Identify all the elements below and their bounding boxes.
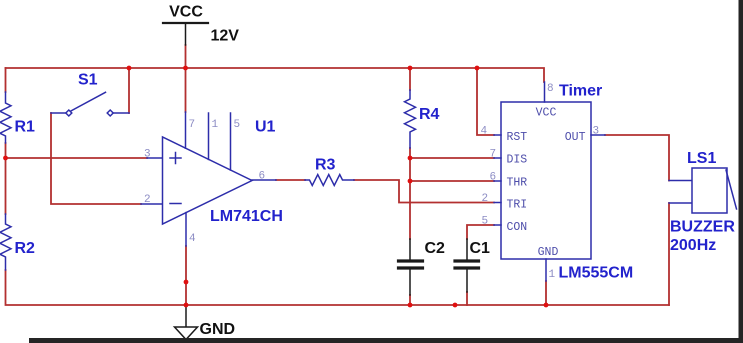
switch S1 right lead (113, 112, 129, 114)
border bottom edge (29, 338, 743, 343)
svg-text:VCC: VCC (169, 4, 203, 21)
svg-text:R3: R3 (315, 157, 336, 174)
wire R4 bottom to C2 (409, 148, 411, 239)
svg-text:DIS: DIS (507, 154, 528, 167)
svg-text:6: 6 (490, 172, 497, 184)
resistor R2 (0, 214, 11, 270)
wire S1 right terminal to bus (128, 68, 130, 113)
svg-text:TRI: TRI (507, 199, 528, 212)
wire R3 to TRI (354, 180, 494, 203)
timer THR stub (494, 180, 501, 182)
junction C2 bus (408, 303, 413, 308)
wire VCC symbol drop (185, 45, 187, 68)
svg-text:7: 7 (189, 119, 196, 131)
svg-text:4: 4 (481, 126, 488, 138)
svg-text:7: 7 (490, 149, 497, 161)
svg-text:1: 1 (212, 119, 219, 131)
junction C1 bus (453, 303, 458, 308)
svg-text:6: 6 (259, 171, 266, 183)
capacitor C2 bottom lead (409, 270, 411, 296)
svg-text:GND: GND (538, 246, 559, 259)
border right edge (739, 0, 743, 343)
wire THR (410, 180, 494, 182)
timer pin1 lead (545, 259, 547, 281)
junction R4 bus (408, 66, 413, 71)
resistor R4 (405, 90, 416, 148)
svg-text:2: 2 (482, 193, 489, 205)
svg-text:VCC: VCC (536, 107, 557, 120)
svg-text:C2: C2 (425, 240, 446, 257)
timer TRI stub (494, 202, 501, 204)
junction RST bus (475, 66, 480, 71)
svg-text:5: 5 (234, 119, 241, 131)
op-amp pin7 lead (185, 112, 187, 148)
op-amp pin1 lead (208, 113, 210, 159)
wire top VCC bus (6, 68, 545, 82)
capacitor C1 bottom lead (466, 270, 468, 293)
wire op-amp pin7 supply (185, 68, 187, 112)
svg-text:C1: C1 (470, 240, 491, 257)
op-amp U1 pin3 stub (147, 157, 163, 159)
svg-text:RST: RST (507, 131, 528, 144)
wire left rail between R1 and R2 (5, 143, 7, 214)
timer CON stub (494, 224, 501, 226)
junction pin4 bus (184, 303, 189, 308)
svg-text:S1: S1 (78, 72, 98, 89)
svg-text:3: 3 (144, 149, 151, 161)
op-amp pin6 stub (252, 179, 276, 181)
wire 555 pin1 to bus (545, 281, 547, 305)
junction pin4 segment (184, 280, 189, 285)
buzzer LS1 lower stub (669, 202, 692, 204)
timer RST stub (494, 134, 501, 136)
op-amp pin4 lead (185, 213, 187, 246)
wire OUT to buzzer (605, 135, 669, 181)
svg-text:R2: R2 (15, 240, 36, 257)
VCC symbol stem (185, 23, 187, 45)
op-amp U1 triangle (163, 137, 253, 224)
buzzer LS1 box (692, 168, 727, 213)
wire S1 left terminal to op-amp pin2 (51, 113, 141, 204)
switch S1 left terminal (66, 110, 72, 116)
timer pin8 lead (544, 82, 546, 102)
resistor R3 (305, 175, 354, 186)
wire left rail bottom and GND bus (6, 270, 670, 305)
buzzer LS1 diagonal (726, 170, 737, 209)
resistor R1 (0, 92, 11, 143)
svg-text:R4: R4 (419, 106, 440, 123)
svg-text:200Hz: 200Hz (670, 237, 716, 254)
svg-text:THR: THR (507, 177, 528, 190)
timer OUT stub (591, 134, 605, 136)
svg-text:GND: GND (200, 321, 236, 338)
svg-text:U1: U1 (255, 119, 276, 136)
capacitor C1 plates (455, 261, 479, 268)
svg-text:CON: CON (507, 221, 528, 234)
wire CON to C1 (467, 225, 494, 239)
wire op-amp pin3 input (6, 157, 148, 159)
wire RST from bus (477, 68, 494, 135)
capacitor C2 top lead (409, 239, 411, 260)
ground symbol triangle (175, 327, 198, 340)
wire buzzer low to bus (668, 203, 670, 305)
wire C2 bottom (409, 295, 411, 305)
buzzer LS1 upper stub (669, 180, 692, 182)
junction R4 DIS (408, 156, 413, 161)
op-amp minus sign (170, 203, 181, 205)
svg-text:BUZZER: BUZZER (670, 219, 735, 236)
timer U2 box LM555CM (501, 102, 591, 259)
junction 555 pin1 bus (544, 303, 549, 308)
capacitor C1 top lead (466, 239, 468, 260)
switch S1 lever (71, 92, 106, 111)
wire left rail R1 top (5, 68, 7, 92)
svg-text:4: 4 (189, 233, 196, 245)
svg-text:Timer: Timer (559, 83, 602, 100)
op-amp pin5 lead (230, 113, 232, 170)
svg-text:OUT: OUT (565, 131, 586, 144)
wire R4 top (409, 68, 411, 90)
svg-text:LS1: LS1 (687, 150, 716, 167)
wire op-amp pin4 to bus (185, 246, 187, 305)
capacitor C2 plates (399, 261, 423, 268)
junction R1 R2 pin3 (3, 156, 8, 161)
op-amp plus sign (170, 153, 181, 164)
svg-text:3: 3 (593, 126, 600, 138)
switch S1 right terminal (107, 110, 113, 116)
timer DIS stub (494, 157, 501, 159)
wire C1 bottom (466, 292, 468, 305)
svg-text:1: 1 (549, 269, 556, 281)
svg-text:2: 2 (144, 194, 151, 206)
svg-text:5: 5 (482, 216, 489, 228)
ground symbol stem (185, 305, 187, 327)
svg-text:12V: 12V (211, 28, 240, 45)
svg-text:R1: R1 (15, 119, 36, 136)
VCC symbol bar (163, 22, 208, 24)
junction VCC bus (183, 66, 188, 71)
junction R4 THR (408, 179, 413, 184)
svg-text:LM741CH: LM741CH (210, 208, 283, 225)
switch S1 left lead (51, 112, 66, 114)
wire op-amp out to R3 (276, 179, 305, 181)
svg-text:LM555CM: LM555CM (559, 265, 634, 282)
svg-text:8: 8 (547, 83, 554, 95)
op-amp U1 pin2 stub (141, 203, 163, 205)
wire DIS (410, 157, 494, 159)
junction S1 bus (127, 66, 132, 71)
